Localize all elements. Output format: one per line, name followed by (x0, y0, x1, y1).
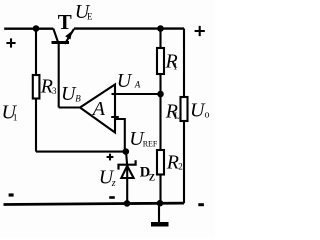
node: junction dot R3 tap on top rail (33, 25, 40, 32)
svg-text:1: 1 (173, 61, 178, 71)
svg-text:A: A (91, 98, 106, 120)
op-amp A (80, 85, 119, 133)
ground (151, 203, 169, 226)
svg-text:U: U (117, 70, 133, 92)
minus sign zener bottom (109, 196, 115, 199)
resistor RL (load) (181, 97, 188, 121)
svg-text:REF: REF (143, 139, 158, 148)
svg-text:R: R (166, 152, 179, 174)
node: junction dot R2 bottom / ground tap (157, 200, 164, 207)
plus sign input left (6, 38, 15, 47)
svg-text:T: T (58, 10, 72, 34)
svg-text:z: z (111, 178, 116, 189)
node: junction dot zener to bottom rail (124, 200, 131, 207)
right rail with load (183, 29, 185, 98)
zener diode DZ (119, 151, 136, 203)
minus sign input left (9, 193, 14, 196)
plus sign zener top (107, 154, 114, 161)
svg-text:1: 1 (13, 114, 18, 124)
wire: inverting input to divider mid (115, 93, 161, 95)
node: junction dot divider midpoint (157, 91, 164, 98)
wire: top output rail right segment (74, 27, 184, 29)
resistor R3 (33, 31, 40, 152)
svg-text:o: o (205, 110, 210, 121)
svg-text:B: B (75, 94, 81, 104)
op-amp U_B output wire to base (59, 106, 80, 108)
resistor R2 (157, 150, 164, 203)
wire: bottom rail (4, 203, 185, 204)
wire: R3 bottom to reference node (36, 151, 126, 153)
minus sign output right (198, 203, 204, 206)
svg-text:3: 3 (52, 86, 57, 96)
svg-text:L: L (174, 111, 180, 121)
node: junction dot reference node (123, 148, 130, 155)
node: junction dot divider top tap (157, 25, 164, 32)
wire: top input rail left segment (4, 28, 53, 30)
wire: non-inverting input down to reference node (115, 119, 125, 151)
transistor T (52, 29, 75, 108)
svg-text:A: A (134, 79, 141, 89)
svg-text:2: 2 (178, 161, 183, 171)
svg-text:Z: Z (149, 173, 155, 183)
plus sign output right (195, 26, 205, 36)
svg-text:E: E (87, 11, 93, 21)
resistor R1 (157, 29, 164, 151)
